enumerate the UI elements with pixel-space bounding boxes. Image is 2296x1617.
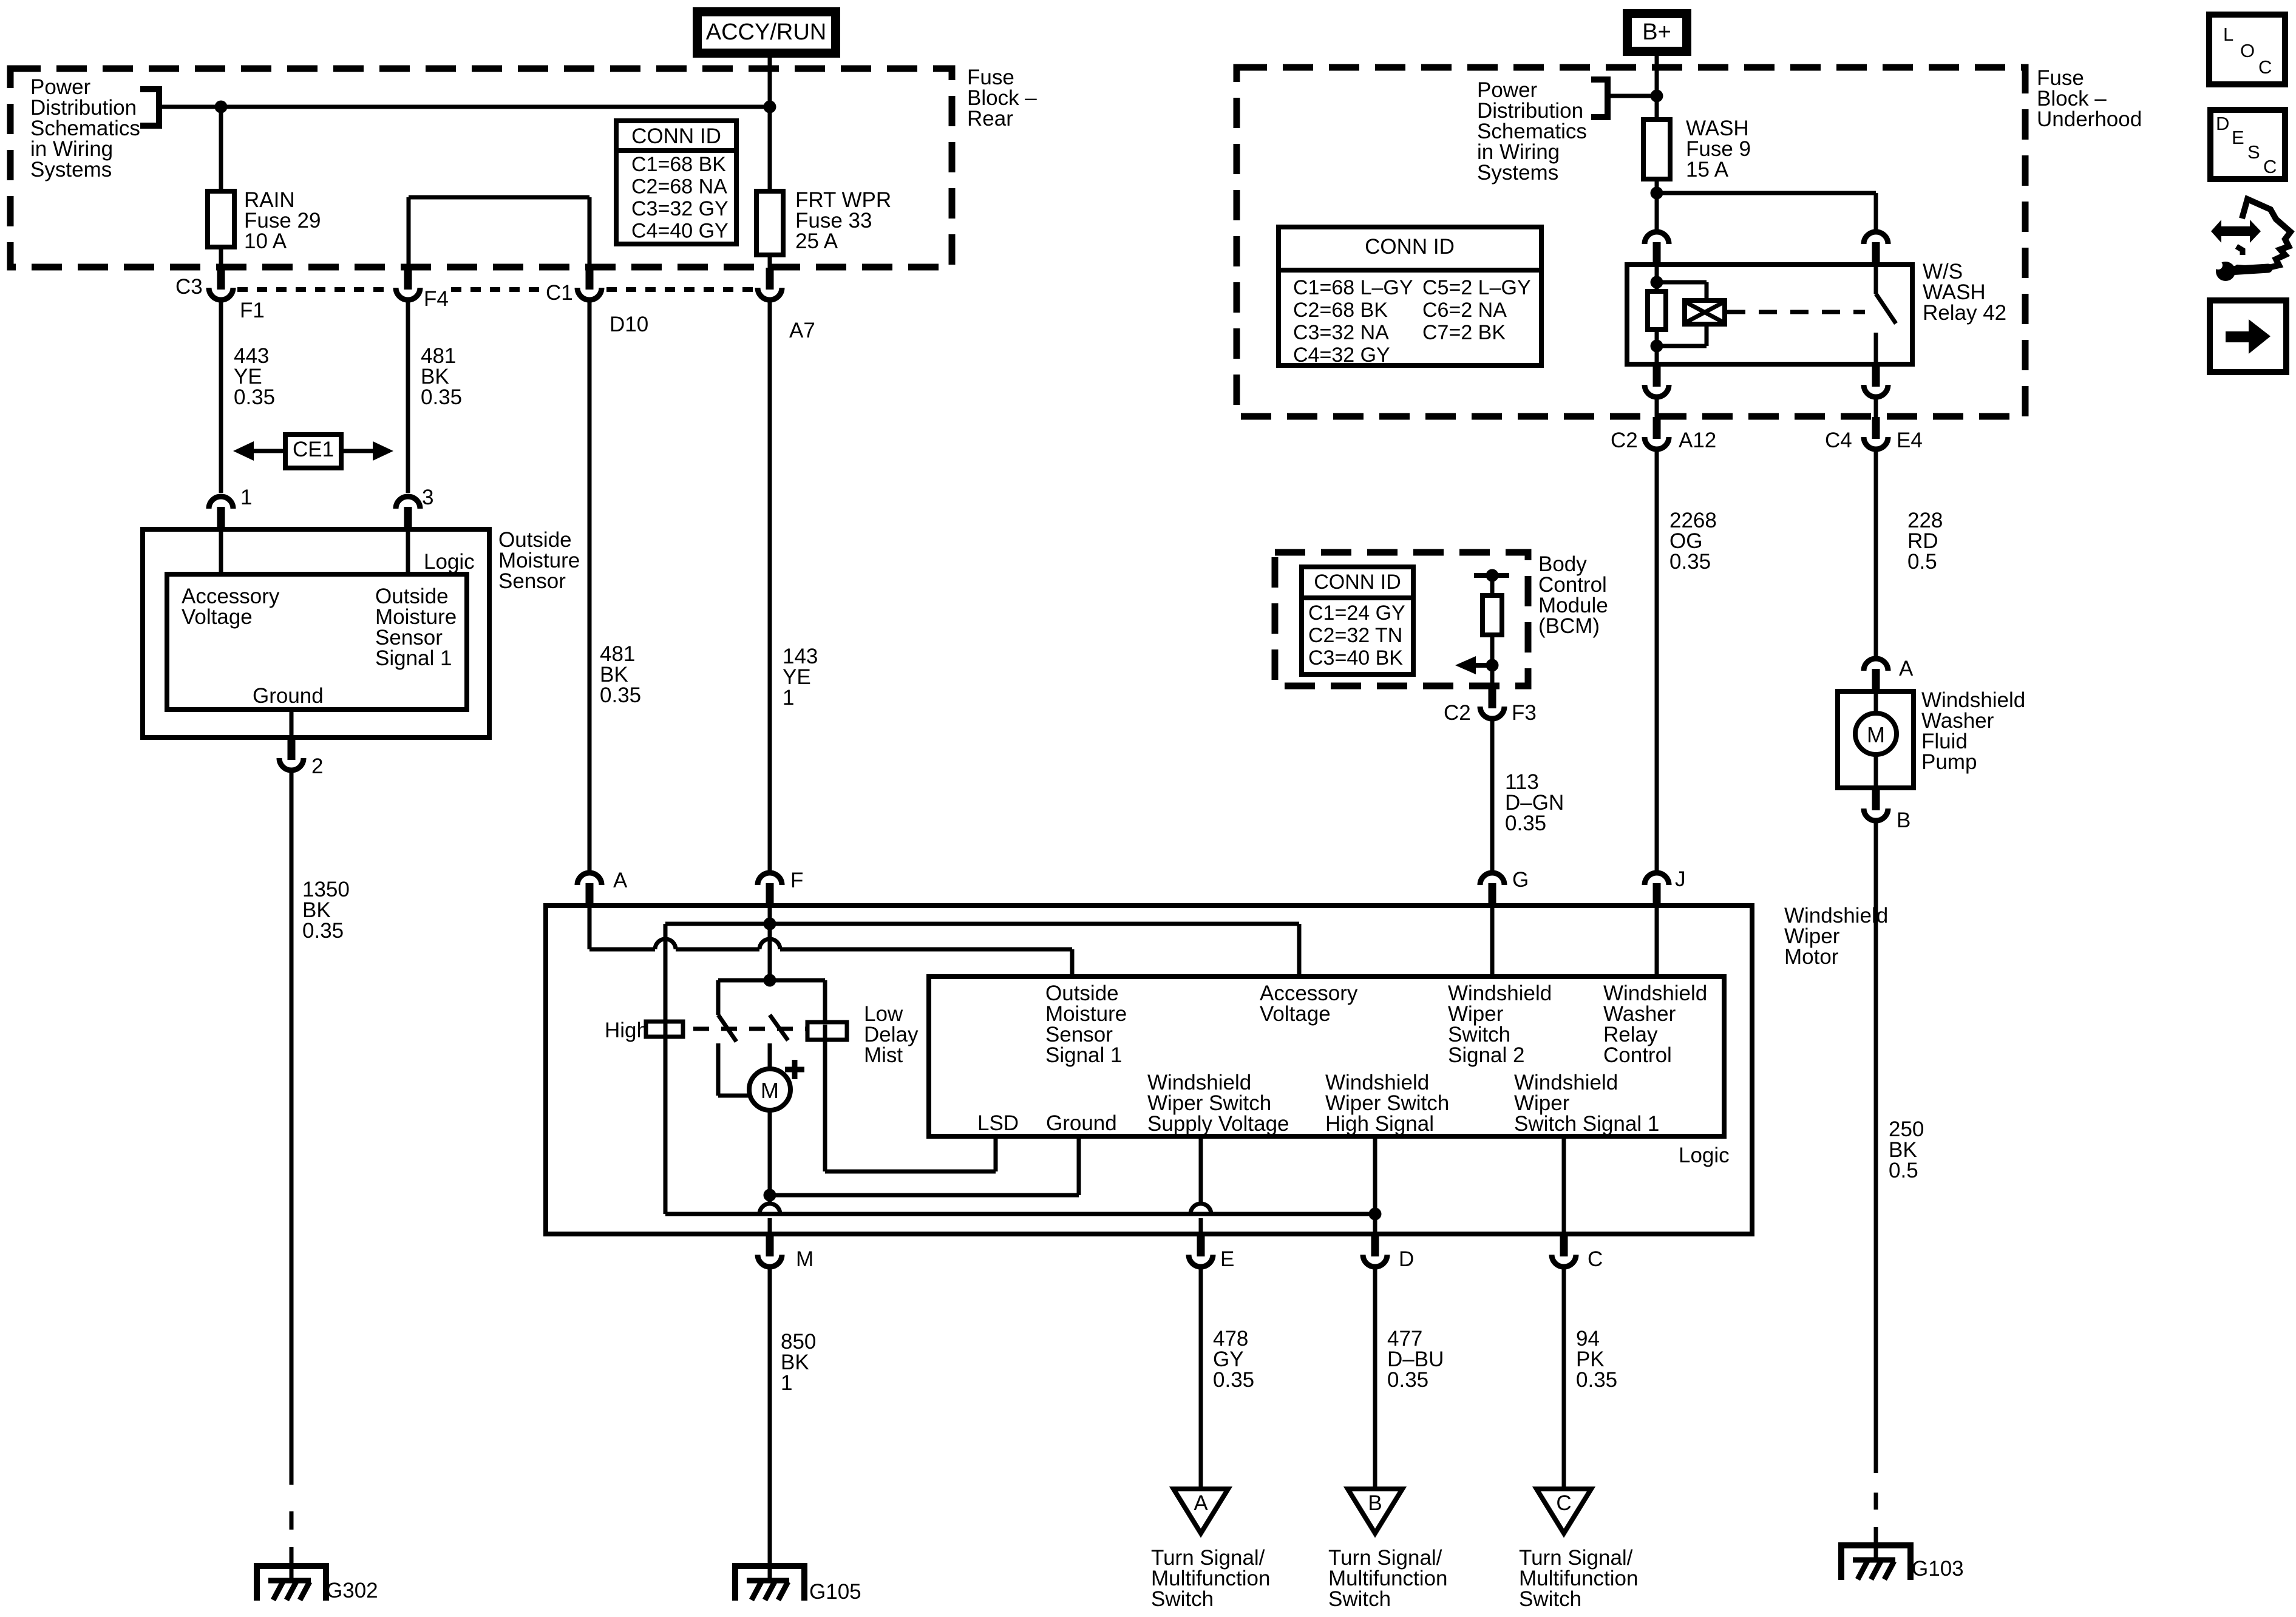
svg-text:Rear: Rear	[967, 107, 1013, 131]
svg-text:High Signal: High Signal	[1325, 1112, 1434, 1136]
svg-text:C1: C1	[546, 281, 573, 305]
svg-text:B+: B+	[1642, 19, 1671, 45]
svg-text:15 A: 15 A	[1686, 158, 1729, 181]
svg-text:D10: D10	[610, 313, 648, 336]
svg-text:C: C	[2258, 56, 2272, 78]
svg-text:O: O	[2240, 40, 2255, 61]
svg-text:(BCM): (BCM)	[1538, 614, 1600, 638]
svg-text:CONN ID: CONN ID	[1365, 235, 1455, 259]
svg-text:3: 3	[422, 486, 433, 509]
svg-text:F1: F1	[240, 299, 265, 322]
svg-text:0.5: 0.5	[1889, 1159, 1918, 1182]
svg-text:C3=32 NA: C3=32 NA	[1293, 321, 1389, 344]
svg-text:C2=68 NA: C2=68 NA	[631, 175, 727, 198]
svg-text:A12: A12	[1679, 429, 1716, 452]
svg-text:M: M	[1867, 722, 1885, 747]
svg-text:C3=40 BK: C3=40 BK	[1308, 646, 1403, 670]
svg-text:L: L	[2223, 24, 2233, 45]
svg-text:0.35: 0.35	[1387, 1368, 1428, 1392]
svg-text:J: J	[1675, 867, 1686, 891]
svg-text:F: F	[790, 869, 803, 892]
svg-text:Switch: Switch	[1519, 1587, 1581, 1611]
svg-text:Ground: Ground	[253, 684, 324, 708]
svg-text:C2: C2	[1444, 701, 1471, 725]
svg-text:C: C	[2263, 156, 2277, 177]
svg-text:1: 1	[783, 686, 794, 710]
svg-text:G302: G302	[326, 1579, 378, 1602]
svg-text:C1=68 L–GY: C1=68 L–GY	[1293, 276, 1413, 299]
svg-text:C4=40 GY: C4=40 GY	[631, 220, 729, 243]
svg-text:Control: Control	[1603, 1043, 1672, 1067]
svg-text:Voltage: Voltage	[1260, 1002, 1331, 1026]
svg-text:C6=2 NA: C6=2 NA	[1422, 299, 1507, 322]
svg-text:C7=2 BK: C7=2 BK	[1422, 321, 1506, 344]
svg-text:Switch: Switch	[1151, 1587, 1214, 1611]
svg-text:A7: A7	[789, 319, 815, 342]
svg-text:F4: F4	[424, 287, 449, 311]
svg-text:ACCY/RUN: ACCY/RUN	[706, 19, 826, 45]
svg-text:G103: G103	[1912, 1557, 1964, 1581]
svg-text:B: B	[1368, 1491, 1382, 1515]
svg-text:Pump: Pump	[1921, 750, 1977, 774]
svg-text:Sensor: Sensor	[498, 569, 566, 593]
svg-text:Signal 2: Signal 2	[1448, 1043, 1524, 1067]
svg-text:Logic: Logic	[424, 550, 475, 574]
svg-text:M: M	[761, 1078, 779, 1103]
svg-text:Supply Voltage: Supply Voltage	[1147, 1112, 1289, 1136]
svg-text:A: A	[613, 869, 628, 892]
svg-text:0.35: 0.35	[1213, 1368, 1254, 1392]
svg-text:Mist: Mist	[864, 1043, 903, 1067]
svg-text:0.35: 0.35	[234, 385, 275, 409]
svg-text:Signal 1: Signal 1	[1045, 1043, 1122, 1067]
svg-text:Logic: Logic	[1679, 1144, 1730, 1167]
svg-text:C3: C3	[175, 275, 203, 299]
svg-text:C2: C2	[1611, 429, 1638, 452]
svg-text:Underhood: Underhood	[2037, 107, 2142, 131]
svg-text:C1=68 BK: C1=68 BK	[631, 153, 726, 176]
svg-text:Switch: Switch	[1328, 1587, 1391, 1611]
svg-text:0.5: 0.5	[1907, 550, 1937, 574]
svg-text:S: S	[2247, 141, 2260, 163]
svg-text:C3=32 GY: C3=32 GY	[631, 197, 729, 220]
svg-text:Ground: Ground	[1046, 1111, 1117, 1135]
svg-text:10 A: 10 A	[244, 229, 287, 253]
svg-text:0.35: 0.35	[1505, 812, 1546, 835]
svg-text:G105: G105	[809, 1580, 861, 1604]
svg-text:0.35: 0.35	[600, 683, 641, 707]
svg-text:CONN ID: CONN ID	[1314, 571, 1401, 594]
svg-text:Relay 42: Relay 42	[1923, 301, 2006, 325]
svg-text:Motor: Motor	[1784, 945, 1839, 969]
svg-text:C1=24 GY: C1=24 GY	[1308, 602, 1405, 625]
svg-text:A: A	[1899, 657, 1914, 680]
svg-text:C: C	[1556, 1491, 1571, 1515]
svg-text:Switch Signal 1: Switch Signal 1	[1514, 1112, 1659, 1136]
svg-text:Signal 1: Signal 1	[375, 646, 452, 670]
svg-text:Systems: Systems	[1477, 161, 1558, 185]
svg-text:C2=32 TN: C2=32 TN	[1308, 624, 1402, 647]
svg-text:G: G	[1512, 868, 1529, 892]
svg-text:D: D	[2216, 113, 2229, 134]
svg-text:0.35: 0.35	[302, 919, 344, 943]
svg-text:C4: C4	[1825, 429, 1852, 452]
svg-text:CE1: CE1	[293, 438, 334, 461]
svg-text:Voltage: Voltage	[182, 605, 253, 629]
svg-text:C4=32 GY: C4=32 GY	[1293, 344, 1390, 367]
svg-text:CONN ID: CONN ID	[631, 124, 721, 148]
svg-text:C2=68 BK: C2=68 BK	[1293, 299, 1388, 322]
svg-text:C: C	[1588, 1247, 1603, 1271]
svg-text:A: A	[1194, 1491, 1208, 1515]
svg-text:0.35: 0.35	[1576, 1368, 1617, 1392]
svg-text:2: 2	[311, 754, 323, 778]
svg-text:High: High	[605, 1019, 648, 1042]
svg-text:1: 1	[240, 486, 252, 509]
svg-text:E: E	[2232, 127, 2244, 148]
svg-text:D: D	[1399, 1247, 1414, 1271]
svg-text:LSD: LSD	[977, 1111, 1019, 1135]
svg-text:25 A: 25 A	[795, 229, 838, 253]
svg-text:M: M	[796, 1247, 813, 1271]
svg-text:1: 1	[781, 1371, 792, 1395]
svg-text:Systems: Systems	[30, 158, 112, 181]
svg-text:B: B	[1897, 808, 1911, 832]
svg-text:E4: E4	[1897, 429, 1923, 452]
svg-text:0.35: 0.35	[421, 385, 462, 409]
svg-text:F3: F3	[1512, 701, 1537, 725]
svg-text:C5=2 L–GY: C5=2 L–GY	[1422, 276, 1531, 299]
svg-text:0.35: 0.35	[1669, 550, 1711, 574]
svg-text:E: E	[1220, 1247, 1234, 1271]
